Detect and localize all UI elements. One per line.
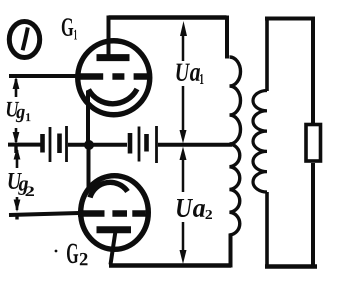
load resistor R <box>306 125 321 162</box>
battery B1 plate short <box>57 134 62 154</box>
label Ug2 subscript 2 <box>26 186 35 196</box>
tube G2 cathode lead <box>87 144 91 188</box>
wire: grid 2 line <box>9 213 79 215</box>
figure number badge circle <box>9 22 39 58</box>
wire: right vertical to coil top <box>225 16 229 59</box>
Ua measure line middle segment <box>182 86 185 133</box>
secondary loop left vertical bottom <box>265 192 269 268</box>
Ua1 down arrowhead <box>180 130 187 144</box>
label Ua1 subscript 1 <box>200 74 203 84</box>
secondary loop right vertical top <box>311 17 315 125</box>
Ua2 down arrowhead <box>180 250 187 264</box>
label G1 letter G <box>62 18 73 36</box>
label G2 subscript 2 <box>80 253 88 265</box>
tube G2 anode lead <box>111 231 116 265</box>
primary coil upper half (3 turns) <box>230 57 241 144</box>
battery B1 plate long <box>65 126 68 162</box>
battery B2 plate short <box>144 134 149 152</box>
tube G2 anode bar <box>97 226 132 233</box>
wire: cathode rail middle <box>68 143 127 147</box>
label Ug1 subscript g <box>16 109 25 123</box>
wire: cathode rail left <box>8 143 41 147</box>
tube G2 cathode arc <box>90 182 128 197</box>
tube G1 anode lead <box>107 16 111 57</box>
tube G2 envelope <box>81 176 149 250</box>
battery B1 plate long <box>49 127 52 162</box>
label Ua1 letter U <box>176 64 190 81</box>
primary coil lower half (4 turns) <box>230 144 240 235</box>
junction dot <box>84 140 94 150</box>
tube G1 grid (dashed) <box>76 73 148 80</box>
wire: right vertical from coil bottom <box>229 234 233 268</box>
label Ug2 letter U <box>8 173 21 189</box>
tube G1 cathode arc <box>89 89 138 104</box>
wire: bottom anode rail <box>109 263 231 267</box>
battery B2 plate short <box>128 133 133 154</box>
tube G1 cathode lead <box>86 91 90 147</box>
battery B2 plate long <box>138 127 141 162</box>
label Ua2 letter U <box>177 199 193 217</box>
label Ua2 subscript 2 <box>205 210 212 219</box>
Ug1 measure arrow bottom <box>15 128 18 142</box>
label G1 subscript 1 <box>74 30 77 40</box>
wire: top anode rail <box>109 15 227 19</box>
tube G1 envelope <box>78 41 150 115</box>
label G2 letter G <box>67 244 78 264</box>
Ua2 up arrowhead <box>180 147 187 161</box>
label Ug1 letter U <box>7 102 19 117</box>
tube G1 anode bar <box>97 54 130 61</box>
label Ua1 subscript a <box>190 68 200 81</box>
label Ug2 subscript g <box>18 180 28 195</box>
Ug2 measure arrow bottom <box>16 197 19 210</box>
figure number 1 glyph <box>23 28 28 51</box>
label Ug1 subscript 1 <box>26 113 31 121</box>
secondary loop left vertical top <box>265 17 269 92</box>
secondary coil (5 turns, bulge left) <box>253 91 267 193</box>
wire: grid 1 line <box>9 74 76 78</box>
secondary loop bottom wire <box>265 264 317 268</box>
Ug1 measure arrow top <box>15 79 18 97</box>
wire: cathode rail right (to coil tap) <box>158 143 232 147</box>
label Ua2 subscript a <box>193 204 205 217</box>
Ua measure line top arrow <box>180 21 187 36</box>
secondary loop right vertical bottom <box>311 163 315 268</box>
ink speck <box>55 250 58 253</box>
secondary loop top wire <box>265 17 313 21</box>
Ua measure line bottom segment <box>182 222 185 253</box>
battery B1 plate short <box>40 134 45 153</box>
tube G2 grid (dashed) <box>78 210 146 217</box>
battery B2 plate long <box>155 126 158 163</box>
Ug2 measure arrow top <box>16 150 19 168</box>
